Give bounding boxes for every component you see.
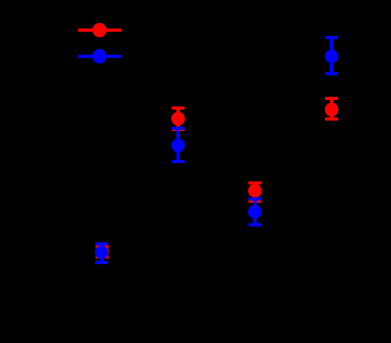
blue series point 1 error line [100,244,104,263]
blue series point 2 marker [171,139,185,153]
red series point 4 marker [325,103,339,117]
red series point 1 marker [95,245,109,259]
blue series point 1 bottom cap [95,261,108,264]
blue series point 1 marker [95,246,109,260]
red series point 4 top cap [325,97,338,100]
red series point 4 error line [330,98,334,119]
red series point 3 top cap [248,181,261,184]
blue series point 3 error line [253,199,257,225]
blue series point 3 top cap [248,197,261,200]
blue series point 4 marker [325,50,339,64]
legend red entry marker [92,23,106,37]
red series point 1 bottom cap [96,255,109,258]
red series point 1 error line [100,247,104,257]
blue series point 2 error line [176,128,180,161]
red series point 2 top cap [172,106,185,109]
red series point 3 marker [248,184,262,198]
blue series point 4 error line [330,38,334,74]
blue series point 2 bottom cap [172,160,185,163]
red series point 3 error line [253,183,257,201]
red series point 1 top cap [96,245,109,248]
red series point 2 marker [171,112,185,126]
legend red entry line [78,29,122,32]
legend blue entry marker [92,49,106,63]
red series point 2 bottom cap [172,128,185,131]
blue series point 3 bottom cap [248,223,261,226]
blue series point 2 top cap [172,127,185,130]
red series point 3 bottom cap [248,200,261,203]
blue series point 4 bottom cap [325,72,338,75]
red series point 2 error line [176,108,180,130]
red series point 4 bottom cap [325,117,338,120]
legend blue entry line [78,55,122,58]
blue series point 3 marker [248,205,262,219]
blue series point 4 top cap [325,36,338,39]
blue series point 1 top cap [95,242,108,245]
